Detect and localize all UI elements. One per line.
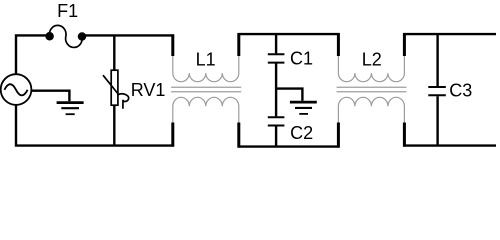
svg-text:RV1: RV1 [131, 80, 166, 100]
svg-text:C2: C2 [290, 123, 313, 143]
svg-text:C3: C3 [449, 80, 472, 100]
svg-text:C1: C1 [290, 49, 313, 69]
svg-text:L2: L2 [362, 50, 382, 70]
svg-text:L1: L1 [196, 50, 216, 70]
svg-text:F1: F1 [57, 1, 78, 21]
